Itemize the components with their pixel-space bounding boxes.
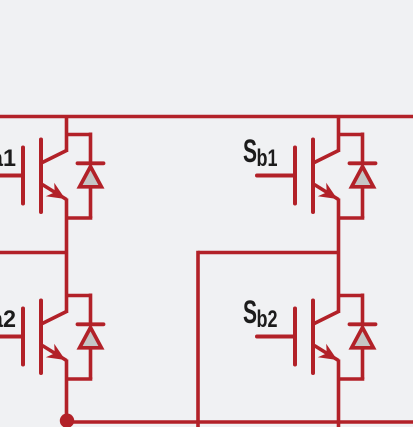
wire: leg B bottom (Sb2 emitter through DC- rail to bottom edge)	[337, 360, 341, 427]
wire: phase b output horizontal	[198, 251, 339, 255]
diode Da1 (antiparallel to Sa1)	[67, 133, 104, 219]
diode Db1 (antiparallel to Sb1)	[339, 133, 376, 219]
svg-text:b2: b2	[257, 306, 278, 333]
svg-text:S: S	[243, 133, 257, 169]
svg-text:a2: a2	[0, 306, 16, 333]
label Sb2	[243, 294, 278, 333]
transistor Sb2 (IGBT)	[257, 301, 339, 374]
svg-text:S: S	[243, 294, 257, 330]
diode Db2 (antiparallel to Sb2)	[339, 294, 376, 380]
wire: phase a output to left edge	[0, 251, 67, 255]
wire: leg A drop from bus to Sa1 collector junction	[65, 117, 69, 153]
junction dot: leg A joins DC- rail	[60, 414, 74, 427]
wire: leg A mid (Sa1 emitter to Sa2 collector), phase-a node	[65, 199, 69, 314]
svg-text:a1: a1	[0, 145, 16, 172]
diode Da2 (antiparallel to Sa2)	[67, 294, 104, 380]
label Sa1 (partially visible subscript a1)	[0, 145, 16, 172]
wire: leg B mid (Sb1 emitter to Sb2 collector), phase-b node	[337, 199, 341, 314]
transistor Sa2 (IGBT, label cut at left edge)	[0, 301, 67, 374]
wire: DC+ top bus	[0, 115, 413, 119]
svg-text:b1: b1	[257, 145, 278, 172]
wire: DC- bottom rail	[67, 420, 413, 424]
label Sb1	[243, 133, 278, 172]
label Sa2 (partially visible subscript a2)	[0, 306, 16, 333]
wire: leg B drop from bus to Sb1 collector junction	[337, 117, 341, 153]
wire: phase b output vertical to bottom edge	[196, 251, 200, 427]
transistor Sa1 (IGBT, label cut at left edge)	[0, 140, 67, 213]
wire: leg A bottom (Sa2 emitter to DC- rail)	[65, 360, 69, 422]
transistor Sb1 (IGBT)	[257, 140, 339, 213]
